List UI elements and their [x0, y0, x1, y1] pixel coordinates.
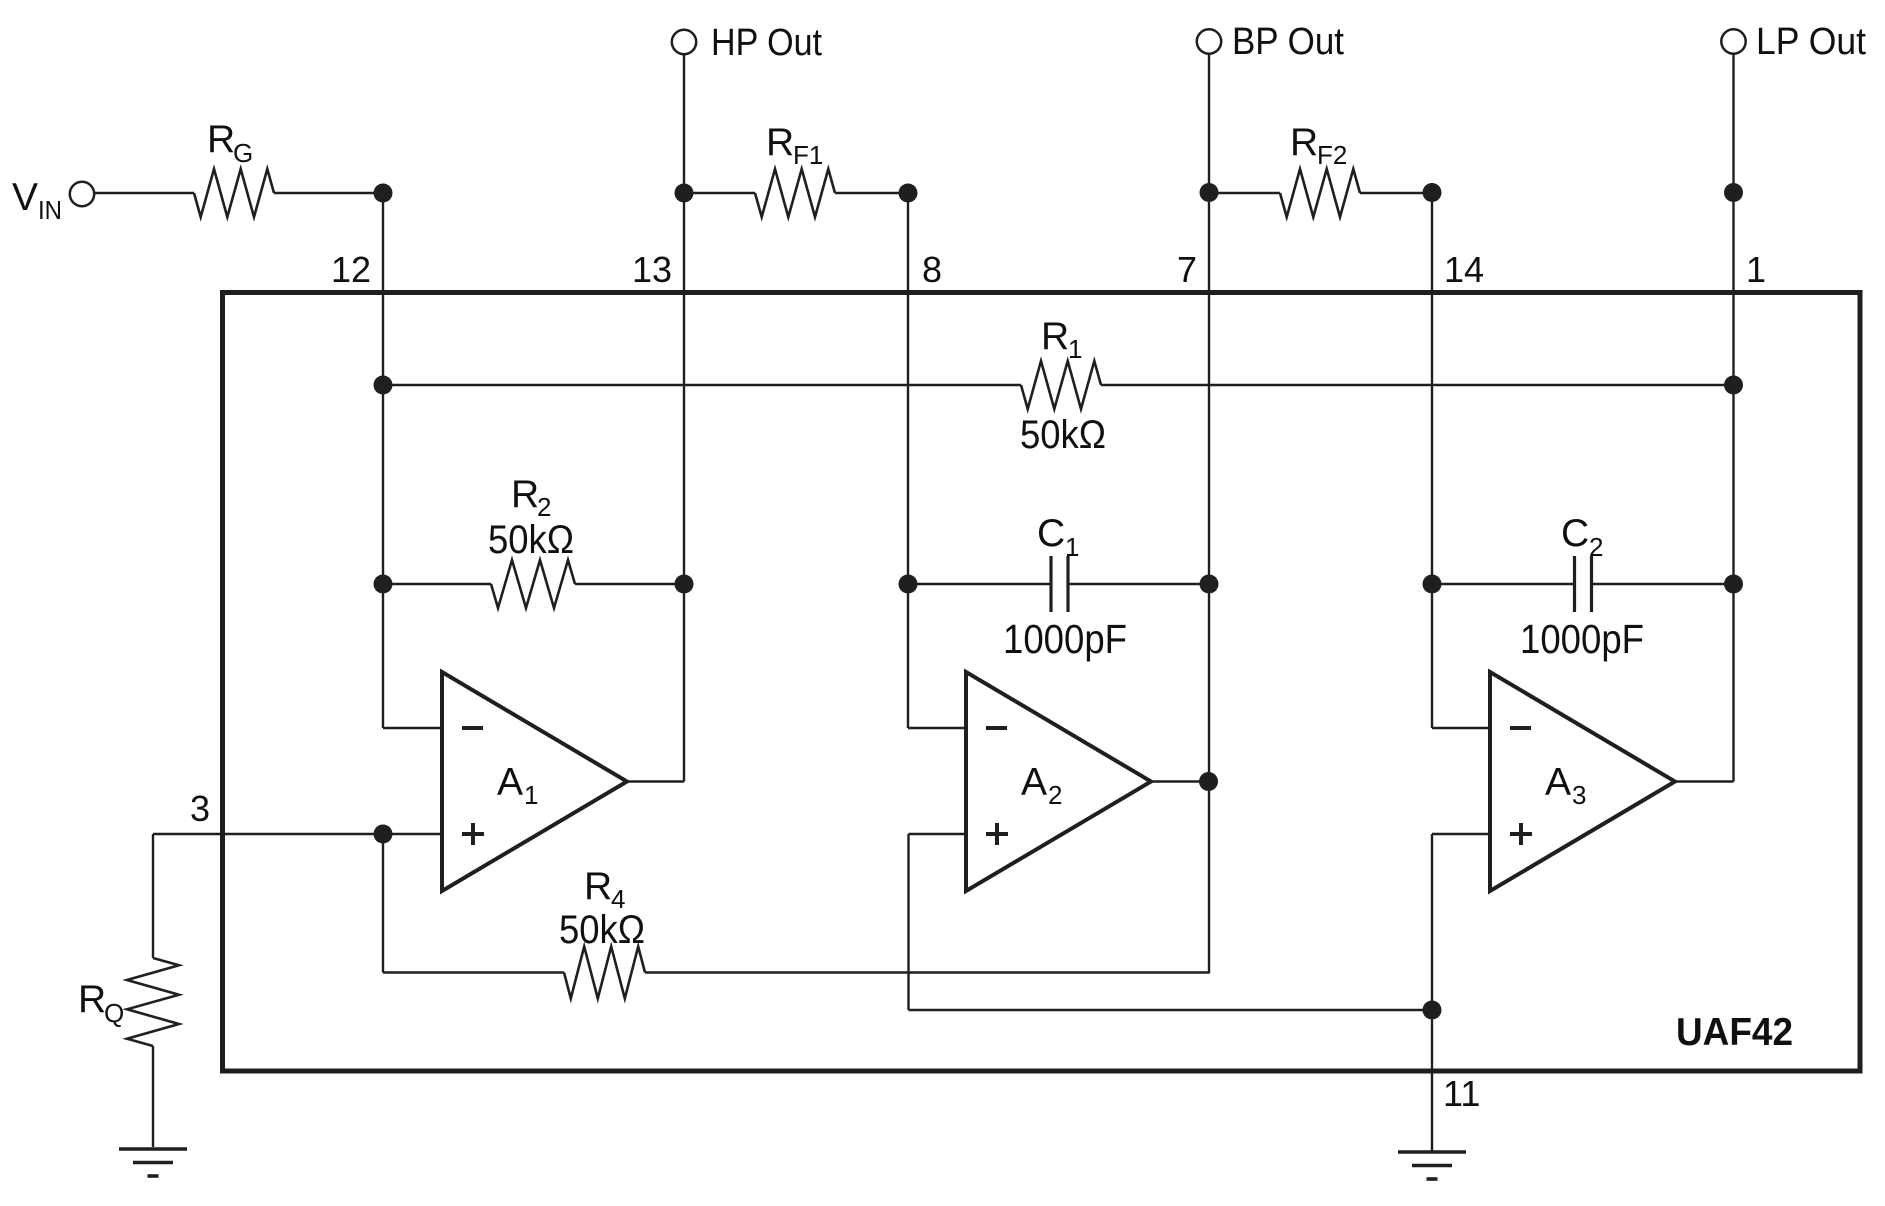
svg-text:R: R [584, 865, 612, 908]
svg-text:LP Out: LP Out [1756, 21, 1866, 63]
svg-text:1: 1 [524, 780, 538, 810]
svg-text:12: 12 [331, 249, 371, 290]
svg-text:8: 8 [922, 249, 942, 290]
svg-text:C: C [1561, 512, 1589, 555]
svg-text:3: 3 [190, 788, 210, 829]
svg-text:1000pF: 1000pF [1003, 616, 1127, 662]
svg-text:1: 1 [1746, 249, 1766, 290]
svg-text:R: R [1041, 315, 1069, 358]
svg-text:R: R [766, 121, 794, 164]
svg-text:C: C [1037, 512, 1065, 555]
svg-text:IN: IN [38, 195, 62, 225]
svg-text:R: R [78, 978, 106, 1021]
svg-text:V: V [12, 176, 38, 219]
svg-text:R: R [207, 118, 235, 161]
svg-text:1: 1 [1068, 334, 1082, 364]
svg-text:14: 14 [1444, 249, 1484, 290]
svg-text:1: 1 [1065, 532, 1079, 562]
svg-text:BP Out: BP Out [1232, 21, 1344, 63]
svg-text:2: 2 [1589, 532, 1603, 562]
svg-text:50kΩ: 50kΩ [488, 518, 574, 562]
svg-text:A: A [1021, 761, 1047, 804]
svg-text:13: 13 [632, 249, 672, 290]
svg-text:UAF42: UAF42 [1676, 1011, 1793, 1054]
svg-text:2: 2 [1048, 780, 1062, 810]
svg-text:G: G [233, 138, 253, 168]
svg-text:F1: F1 [793, 140, 823, 170]
svg-text:7: 7 [1177, 249, 1197, 290]
svg-text:11: 11 [1443, 1073, 1480, 1114]
svg-text:3: 3 [1572, 780, 1586, 810]
svg-text:A: A [497, 761, 523, 804]
svg-text:F2: F2 [1317, 140, 1347, 170]
svg-text:R: R [1290, 121, 1318, 164]
svg-text:1000pF: 1000pF [1520, 616, 1644, 662]
svg-text:Q: Q [104, 998, 124, 1028]
svg-text:HP Out: HP Out [711, 22, 822, 64]
svg-text:50kΩ: 50kΩ [1020, 413, 1106, 457]
svg-text:50kΩ: 50kΩ [559, 908, 645, 952]
svg-text:A: A [1545, 761, 1571, 804]
svg-text:R: R [511, 473, 539, 516]
